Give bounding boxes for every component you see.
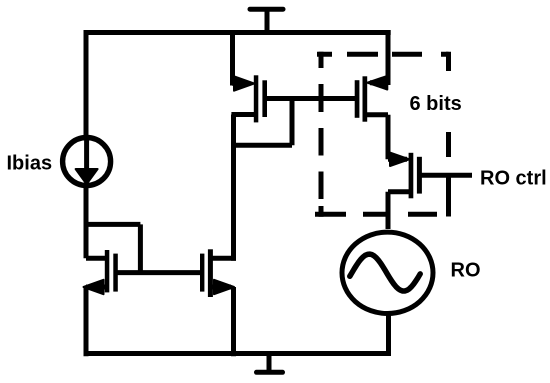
- power VDD symbol: [250, 9, 283, 35]
- wire M1 source to ground rail: [84, 287, 89, 356]
- svg-text:6 bits: 6 bits: [410, 93, 462, 115]
- dashed selection box 6 bits : top edge: [317, 52, 449, 57]
- sine wave inside RO: [350, 254, 420, 291]
- dashed selection box 6 bits : bottom edge: [315, 212, 437, 217]
- wire top VDD rail: [84, 30, 391, 35]
- transistor M2 (NMOS mirror, right): [200, 249, 236, 297]
- transistor M1 (NMOS diode-connected, left): [84, 250, 118, 294]
- wire RO output to ground rail: [386, 314, 391, 356]
- wire M1 gate-drain tie: [84, 224, 141, 272]
- wire M5 gate to RO ctrl terminal: [419, 173, 472, 178]
- wire M3 drain lead: [231, 112, 256, 117]
- transistor M4 (PMOS in 6-bit bank, top): [355, 76, 388, 122]
- ground symbol: [257, 353, 283, 372]
- wire NMOS mirror gate net: [115, 270, 203, 275]
- svg-text:RO ctrl: RO ctrl: [480, 168, 547, 190]
- wire Ibias to M1 drain: [86, 186, 106, 258]
- dashed selection box 6 bits : left edge: [319, 52, 324, 217]
- wire left vertical from rail to Ibias: [84, 30, 89, 140]
- current source Ibias: [63, 137, 111, 186]
- wire PMOS mirror gate net: [264, 96, 357, 101]
- wire ground rail: [84, 351, 392, 356]
- transistor M5 (PMOS switch, RO ctrl): [390, 153, 422, 199]
- svg-text:Ibias: Ibias: [7, 152, 53, 174]
- wire rail to M4 source: [370, 30, 388, 85]
- wire rail to M3 source: [233, 30, 251, 86]
- wire M3 gate-drain tie: [231, 99, 292, 146]
- wire M2 source to ground rail: [231, 287, 236, 356]
- svg-text:RO: RO: [451, 259, 481, 281]
- dashed selection box 6 bits : right edge: [446, 52, 451, 217]
- wire center column M3 drain to M2 drain: [231, 115, 236, 261]
- wire M5 drain to RO: [388, 192, 411, 229]
- transistor M3 (PMOS diode-connected, left): [234, 75, 267, 122]
- oscillator RO symbol: [342, 232, 433, 313]
- wire M4 drain to M5 source: [365, 115, 407, 160]
